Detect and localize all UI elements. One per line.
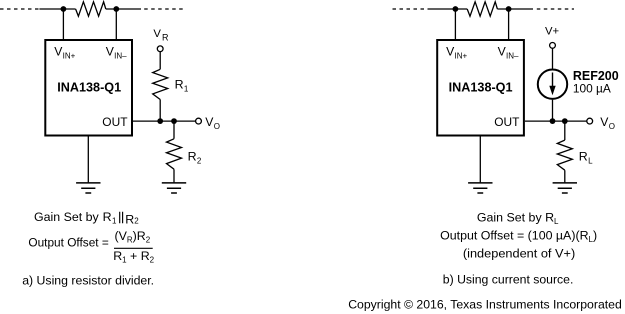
svg-text:R1 + R2: R1 + R2 <box>113 249 154 265</box>
svg-text:O: O <box>609 122 615 131</box>
svg-text:(VR)R2: (VR)R2 <box>115 229 151 245</box>
svg-text:IN+: IN+ <box>455 52 468 61</box>
svg-text:(independent of V+): (independent of V+) <box>463 246 575 260</box>
svg-text:OUT: OUT <box>494 115 520 129</box>
svg-text:L: L <box>588 156 593 165</box>
svg-text:R: R <box>579 149 588 163</box>
svg-text:2: 2 <box>197 156 202 165</box>
svg-text:R: R <box>188 149 197 163</box>
svg-text:Copyright © 2016, Texas Instru: Copyright © 2016, Texas Instruments Inco… <box>348 298 622 312</box>
svg-text:OUT: OUT <box>102 115 128 129</box>
svg-text:V: V <box>153 28 161 40</box>
svg-text:R: R <box>162 32 169 42</box>
svg-text:Gain Set by RL: Gain Set by RL <box>477 211 559 227</box>
svg-text:IN–: IN– <box>114 52 127 61</box>
svg-text:IN–: IN– <box>506 52 519 61</box>
svg-text:O: O <box>214 122 220 131</box>
svg-text:b) Using current source.: b) Using current source. <box>443 273 574 287</box>
svg-text:INA138-Q1: INA138-Q1 <box>449 80 513 94</box>
svg-text:Output Offset = (100 µA)(RL): Output Offset = (100 µA)(RL) <box>440 228 597 244</box>
svg-text:100 µA: 100 µA <box>573 81 612 95</box>
svg-text:R: R <box>175 78 184 92</box>
svg-text:Output Offset =: Output Offset = <box>28 236 108 250</box>
svg-text:V+: V+ <box>545 26 560 38</box>
svg-text:INA138-Q1: INA138-Q1 <box>57 80 121 94</box>
svg-text:a) Using resistor divider.: a) Using resistor divider. <box>22 273 154 287</box>
svg-text:IN+: IN+ <box>63 52 76 61</box>
svg-text:1: 1 <box>184 85 189 94</box>
